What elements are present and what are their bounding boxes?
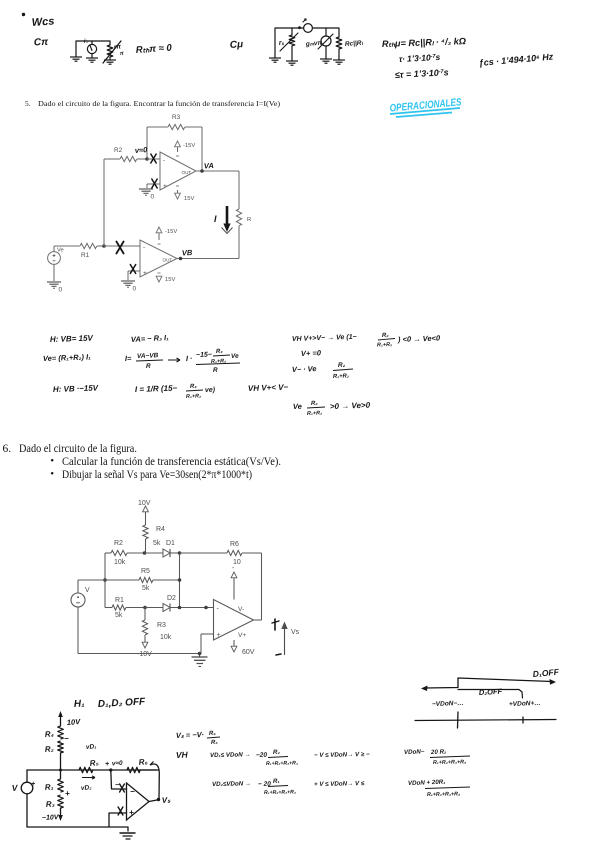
handwritten solution I=1/R(15-...Ve) — [135, 384, 216, 400]
svg-text:−: − — [64, 734, 69, 743]
svg-text:15V: 15V — [165, 277, 175, 283]
svg-text:R₃: R₃ — [190, 384, 198, 390]
handwritten X on U1 plus input — [152, 179, 157, 188]
svg-text:+: + — [163, 183, 167, 190]
svg-text:VA: VA — [204, 161, 214, 171]
svg-text:−20: −20 — [256, 752, 268, 759]
handwritten D2 region bracket — [458, 687, 523, 698]
svg-text:20 R₂: 20 R₂ — [430, 748, 447, 756]
svg-text:0: 0 — [59, 287, 63, 294]
resistor R2 hand circuit — [45, 741, 64, 754]
svg-text:R₁+R₂: R₁+R₂ — [186, 393, 201, 400]
resistor R5 hand circuit — [79, 758, 99, 773]
svg-text:≤τ = 1’3∙10-7s: ≤τ = 1’3∙10-7s — [395, 67, 449, 80]
svg-text:VD₂≤VDoN →: VD₂≤VDoN → — [212, 780, 251, 788]
svg-text:v≈0: v≈0 — [135, 145, 149, 155]
diode D2 — [163, 595, 176, 612]
svg-text:− 20: − 20 — [258, 781, 271, 788]
voltage source Ve — [48, 246, 64, 264]
svg-text:-: - — [232, 565, 235, 572]
handwritten number line axis — [415, 712, 556, 728]
handwritten label VB — [182, 248, 193, 258]
handwritten label D1 OFF — [532, 667, 560, 679]
svg-text:H₁: H₁ — [74, 698, 86, 710]
op-amp U1 negative supply pin -15V — [175, 141, 196, 156]
handwritten formula RTHpi = 0 — [135, 42, 172, 56]
svg-text:+VDoN+…: +VDoN+… — [509, 700, 541, 708]
svg-text:Wcs: Wcs — [31, 15, 54, 29]
supply arrow -10V hand circuit — [42, 808, 63, 822]
handwritten X on U1 inverting input — [151, 154, 156, 163]
svg-text:R: R — [247, 217, 251, 223]
handwritten D1 region arrow line — [421, 678, 556, 691]
wire: inverting input branch hand circuit — [111, 770, 127, 789]
svg-text:Vₛ: Vₛ — [162, 795, 172, 805]
handwritten solution I=(VA-VB)/R — [125, 352, 180, 370]
svg-text:π: π — [120, 51, 125, 57]
svg-text:5k: 5k — [142, 585, 150, 592]
handwritten arrow and VD2 under R5 — [81, 776, 95, 792]
handwritten solution V+=0 — [301, 348, 322, 358]
handwritten equation line VD2 — [212, 778, 470, 798]
svg-text:ve): ve) — [205, 387, 216, 394]
op-amp U1 positive supply pin 15V — [175, 186, 195, 202]
svg-text:R4: R4 — [156, 526, 165, 533]
svg-text:10k: 10k — [114, 559, 126, 566]
svg-text:Ve= (R₁+R₂) I₁: Ve= (R₁+R₂) I₁ — [43, 352, 92, 363]
ground mini-circuit-2 left — [269, 34, 281, 62]
svg-text:OUT: OUT — [182, 170, 192, 175]
svg-text:Rc||Rₗ: Rc||Rₗ — [345, 40, 364, 48]
wire: main horizontal rail hand circuit — [27, 769, 159, 772]
voltage source V — [71, 580, 105, 654]
node C junction dot — [143, 606, 163, 610]
wire: R6 to op-amp output — [242, 553, 262, 620]
wire: U2 output VB rail — [177, 257, 239, 261]
svg-text:vD₁: vD₁ — [86, 743, 97, 751]
handwritten solution line H: VB=15V — [50, 333, 94, 344]
svg-text:R₆: R₆ — [138, 757, 148, 767]
svg-text:R5: R5 — [141, 568, 150, 575]
handwritten equation Vs=-V R6/R5 — [176, 730, 220, 746]
svg-text:V: V — [11, 783, 19, 793]
svg-text:D2: D2 — [167, 595, 176, 602]
handwritten label VA — [204, 161, 214, 171]
handwritten X on op-amp inverting input hand circuit — [120, 784, 125, 792]
svg-text:VH V+>V− → Ve (1−: VH V+>V− → Ve (1− — [292, 334, 357, 343]
ground mini-circuit-1 left — [70, 47, 82, 61]
svg-text:−: − — [130, 787, 135, 796]
svg-text:rₓ: rₓ — [279, 40, 285, 47]
resistor R3 hand circuit — [46, 795, 64, 809]
svg-text:I = 1/R (15−: I = 1/R (15− — [135, 384, 178, 394]
handwritten heading Wcs — [22, 13, 55, 29]
svg-text:+ V ≤ VDoN→ V ≤: + V ≤ VDoN→ V ≤ — [314, 780, 365, 788]
resistor R4 — [143, 525, 165, 547]
svg-text:+: + — [65, 789, 70, 798]
svg-text:I ∙: I ∙ — [186, 354, 193, 363]
svg-text:VA−VB: VA−VB — [137, 352, 159, 360]
problem 5 statement text — [25, 99, 31, 108]
svg-text:R₂: R₂ — [45, 744, 54, 754]
wire: feedback loop top (R3 branch) — [147, 127, 202, 171]
svg-text:VA= − R₃ I₁: VA= − R₃ I₁ — [131, 333, 170, 344]
svg-text:R₁+R₂+R₃+R₄: R₁+R₂+R₃+R₄ — [266, 760, 298, 767]
wire: junction to R2 branch — [102, 159, 106, 248]
svg-text:Ve: Ve — [293, 402, 302, 411]
op-amp U2 negative supply pin -15V — [156, 227, 177, 244]
svg-text:-: - — [143, 244, 145, 251]
svg-text:R₅: R₅ — [89, 758, 99, 768]
dependent source gmVpi mini-circuit-2 — [305, 28, 333, 63]
wire: resistor R to VB rail — [238, 226, 240, 258]
svg-text:− V ≤ VDoN→ V ≥ −: − V ≤ VDoN→ V ≥ − — [314, 751, 370, 759]
svg-text:V− ∙ Ve: V− ∙ Ve — [292, 364, 317, 374]
resistor Rc||RL mini-circuit-2 — [333, 34, 364, 64]
svg-text:Rₜₕμ= Rc||Rₗ ∙ ⁴/₃ kΩ: Rₜₕμ= Rc||Rₗ ∙ ⁴/₃ kΩ — [382, 36, 466, 49]
svg-text:D1: D1 — [166, 540, 175, 547]
node V=0 hand circuit — [105, 760, 123, 772]
svg-text:i↓: i↓ — [84, 39, 89, 45]
handwritten formula fcs — [478, 51, 554, 68]
svg-text:V-: V- — [238, 606, 244, 613]
handwritten equation line VD1 — [210, 748, 470, 767]
svg-text:ƒcs ∙ 1’494∙10⁶ Hz: ƒcs ∙ 1’494∙10⁶ Hz — [478, 51, 554, 68]
op-amp U3 top supply pin - — [231, 565, 237, 600]
svg-text:-10V: -10V — [137, 651, 152, 658]
ground mini-circuit-1 middle — [86, 58, 98, 62]
resistor R3 — [142, 608, 171, 642]
svg-text:R₂: R₂ — [273, 749, 281, 756]
svg-text:V+: V+ — [238, 632, 246, 639]
svg-text:I=: I= — [125, 354, 132, 363]
svg-text:R₁: R₁ — [45, 782, 54, 792]
svg-text:+: + — [31, 781, 35, 788]
current source ib mini-circuit-1 — [84, 39, 97, 58]
handwritten plus mark near Vs — [272, 619, 279, 630]
svg-text:R₁+R₂: R₁+R₂ — [307, 410, 322, 417]
wire: chain through node hand circuit — [60, 753, 62, 779]
svg-text:R1: R1 — [115, 597, 124, 604]
handwritten label VD1 — [86, 743, 97, 751]
svg-text:H: VB= 15V: H: VB= 15V — [50, 333, 94, 344]
svg-text:-15V: -15V — [183, 143, 195, 149]
handwritten X on op-amp plus input hand circuit — [118, 807, 123, 815]
handwritten solution line VH condition 1 — [292, 333, 441, 349]
svg-text:Rₜₕπ ≈ 0: Rₜₕπ ≈ 0 — [135, 42, 172, 56]
svg-text:v≈0: v≈0 — [112, 760, 124, 768]
svg-text:R2: R2 — [114, 147, 123, 154]
wire: feedback hook to Vs node hand circuit — [140, 762, 159, 800]
svg-text:I: I — [214, 214, 217, 224]
resistor R6 — [227, 541, 242, 566]
resistor R2 — [104, 147, 147, 162]
svg-text:R₂: R₂ — [338, 362, 346, 369]
resistor rx mini-circuit-2 — [279, 28, 298, 65]
ground hand circuit — [120, 833, 135, 839]
handwritten solution VA=-R3I1 — [131, 333, 170, 344]
svg-text:15V: 15V — [184, 196, 194, 202]
svg-text:−: − — [115, 782, 119, 789]
handwritten label +VDON — [509, 700, 541, 708]
handwritten note v=0 — [135, 145, 149, 155]
resistor R3 — [168, 114, 185, 130]
svg-text:VD₁≤ VDoN →: VD₁≤ VDoN → — [210, 751, 251, 759]
resistor rpi mini-circuit-1 — [103, 41, 124, 63]
svg-text:-15V: -15V — [165, 229, 177, 235]
svg-text:Ve: Ve — [231, 353, 239, 360]
handwritten label Cmu — [229, 39, 243, 51]
svg-text:60V: 60V — [242, 649, 255, 656]
svg-text:R1: R1 — [81, 252, 90, 259]
svg-text:0: 0 — [151, 194, 155, 201]
svg-text:-: - — [163, 157, 165, 164]
svg-text:Cπ: Cπ — [34, 37, 50, 49]
svg-text:V+ =0: V+ =0 — [301, 348, 322, 358]
handwritten formula RTHmu — [382, 36, 466, 49]
svg-text:τ∙ 1’3∙10-7s: τ∙ 1’3∙10-7s — [399, 52, 441, 64]
svg-text:10V: 10V — [138, 500, 151, 507]
svg-text:R: R — [213, 367, 218, 374]
svg-text:V: V — [85, 587, 90, 594]
handwritten label -VDON — [432, 700, 464, 708]
handwritten solution Ve R2/(R1+R2)>0 — [293, 401, 371, 417]
handwritten solution V-=VeR2/(R1+R2) — [292, 362, 353, 380]
wire: U3 plus input to ground — [201, 634, 214, 654]
svg-text:+: + — [129, 808, 134, 817]
resistor R1 hand circuit — [45, 779, 70, 798]
svg-text:R₃: R₃ — [46, 799, 55, 809]
svg-text:VDoN + 20R₁: VDoN + 20R₁ — [408, 779, 446, 787]
svg-text:5k: 5k — [115, 612, 123, 619]
svg-text:Ve: Ve — [57, 248, 64, 254]
resistor R4 hand circuit — [45, 726, 69, 743]
handwritten solution H: VB=-15V — [53, 383, 99, 394]
handwritten label Cpi — [34, 37, 50, 49]
wire: R4 to node A — [145, 539, 147, 553]
op-amp U1 triangle — [160, 152, 196, 190]
svg-text:VDoN−: VDoN− — [404, 748, 425, 756]
svg-text:10V: 10V — [67, 717, 82, 727]
supply flag 10V — [138, 500, 151, 525]
op-amp U2 positive supply pin 15V — [156, 273, 175, 283]
svg-text:10k: 10k — [160, 634, 172, 641]
problem 6 statement text — [3, 443, 12, 455]
svg-text:+: + — [217, 632, 221, 639]
resistor R1 — [105, 597, 145, 619]
svg-text:R₁+R₂+R₃+R₄: R₁+R₂+R₃+R₄ — [427, 791, 460, 798]
voltage source V hand circuit — [11, 770, 35, 827]
svg-text:R: R — [146, 363, 151, 370]
svg-text:>0 → Ve>0: >0 → Ve>0 — [330, 401, 371, 411]
handwritten title H1 D1,D2 OFF — [74, 696, 147, 710]
svg-text:−VDoN−…: −VDoN−… — [432, 700, 464, 708]
svg-text:5k: 5k — [153, 540, 161, 547]
svg-text:R₂: R₂ — [382, 333, 390, 339]
ground 0 at U1 plus input — [139, 189, 155, 201]
output node Vs hand circuit — [149, 795, 171, 805]
svg-text:R6: R6 — [230, 541, 239, 548]
svg-text:0: 0 — [133, 286, 137, 293]
op-amp U3 triangle — [214, 600, 254, 641]
svg-text:Cμ: Cμ — [229, 39, 243, 51]
op-amp hand circuit triangle — [127, 783, 150, 820]
ground 0 at U2 plus input — [121, 281, 137, 293]
wire: left bus V to R2/R5/R1 — [103, 553, 107, 608]
current source top mini-circuit-2 — [303, 19, 312, 32]
wire: U1 output node VA — [196, 169, 239, 173]
svg-text:D₂OFF: D₂OFF — [479, 687, 503, 697]
ground 0 under Ve — [47, 264, 63, 293]
svg-text:R₁+R₂: R₁+R₂ — [377, 342, 392, 349]
handwritten solution I = -15- fraction — [186, 349, 240, 374]
node B vertical bus — [178, 553, 182, 608]
svg-text:R₆: R₆ — [209, 731, 217, 737]
svg-text:R2: R2 — [114, 540, 123, 547]
printed current probe arrow — [222, 228, 233, 234]
svg-text:R₁+R₂+R₃+R₄: R₁+R₂+R₃+R₄ — [264, 789, 296, 796]
svg-text:R₂: R₂ — [311, 401, 319, 407]
wire: plus input to bottom rail hand circuit — [109, 813, 127, 827]
wire: bottom rail hand circuit — [27, 827, 128, 831]
svg-text:Vs: Vs — [291, 629, 300, 636]
diode D1 — [163, 540, 180, 557]
wire: mini-circuit-1 top rail — [76, 41, 110, 47]
svg-text:VH V+< V−: VH V+< V− — [248, 383, 289, 393]
node A junction dot — [143, 551, 163, 555]
svg-text:vD₂: vD₂ — [81, 784, 93, 792]
svg-text:R3: R3 — [157, 622, 166, 629]
supply arrow 10V hand circuit — [58, 711, 81, 727]
ground mini-circuit-1 right — [104, 57, 116, 64]
handwritten formula tau — [399, 52, 441, 64]
signal arrow Vs — [281, 622, 299, 656]
handwritten X on R1 wire — [116, 242, 123, 254]
svg-text:-: - — [217, 606, 220, 613]
resistor R6 hand circuit — [127, 757, 148, 773]
svg-text:R₅: R₅ — [211, 740, 219, 746]
svg-text:D₁,D₂ OFF: D₁,D₂ OFF — [98, 696, 147, 710]
svg-text:R₁+R₂+R₃+R₄: R₁+R₂+R₃+R₄ — [433, 759, 466, 766]
handwritten current arrow I — [214, 206, 231, 232]
node inverting input op-amp U1 — [145, 157, 160, 161]
svg-text:VH: VH — [176, 750, 189, 760]
wire: mini-circuit-2 top rail — [275, 26, 339, 34]
wire: D2 cathode to op-amp inverting input — [170, 606, 214, 610]
earth ground circuit 6 — [192, 654, 208, 667]
resistor R2 — [105, 540, 145, 566]
svg-text:R3: R3 — [172, 114, 181, 121]
svg-text:R₃: R₃ — [216, 349, 224, 355]
supply flag -10V — [137, 635, 152, 658]
handwritten minus mark near Vs — [276, 654, 281, 655]
svg-text:OUT: OUT — [163, 258, 173, 263]
svg-text:R₁+R₂: R₁+R₂ — [333, 373, 350, 380]
handwritten X on U2 plus input — [130, 265, 135, 274]
node B junction dot — [178, 551, 182, 555]
resistor R — [236, 209, 251, 226]
svg-text:R₄: R₄ — [45, 729, 55, 739]
handwritten label VH bottom — [176, 750, 189, 760]
op-amp U3 bottom supply pin 60V — [231, 640, 255, 656]
wire: junction to op-amp U2 inverting input — [104, 245, 140, 247]
wire: right branch down to resistor R — [238, 171, 240, 209]
wire: U1 plus input to ground — [147, 184, 160, 188]
svg-text:rπ: rπ — [114, 43, 122, 51]
svg-text:+: + — [105, 761, 109, 768]
svg-text:VB: VB — [182, 248, 193, 258]
resistor R1 — [54, 243, 104, 259]
resistor R5 — [105, 568, 180, 592]
op-amp U2 triangle — [140, 240, 177, 277]
handwritten solution VH V+<V- — [248, 383, 289, 393]
handwritten solution Ve=(R1+R2)I1 — [43, 352, 92, 363]
svg-text:) <0 → Ve<0: ) <0 → Ve<0 — [397, 334, 441, 345]
svg-text:−10V: −10V — [42, 814, 60, 822]
svg-text:Vₛ = −V∙: Vₛ = −V∙ — [176, 730, 204, 740]
wire: node B to R6 — [180, 552, 228, 554]
svg-text:+: + — [143, 270, 147, 277]
handwritten formula sum tau — [395, 67, 449, 80]
wire: U2 plus input to ground — [128, 271, 140, 280]
svg-text:R₁: R₁ — [273, 778, 280, 785]
cyan marker title OPERACIONALES — [389, 96, 462, 117]
svg-text:H: VB ∙−15V: H: VB ∙−15V — [53, 383, 99, 394]
svg-text:−15−: −15− — [196, 351, 212, 359]
wire: bottom rail — [78, 652, 201, 656]
svg-text:D₁OFF: D₁OFF — [532, 667, 560, 679]
